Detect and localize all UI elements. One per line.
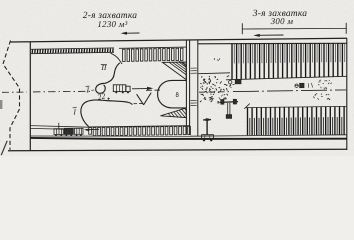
icon: muck truck at face	[113, 85, 130, 94]
node: pipe fittings marks upper	[318, 80, 332, 89]
node: pipe fittings marks lower	[214, 90, 222, 99]
dimension line 300m with end ticks	[242, 23, 346, 34]
hatch: arch rib teeth band (top heading lining)	[119, 47, 186, 61]
hatch: lower wall hatch band (3rd section)	[248, 107, 345, 136]
hatch: fine comb band (completed lining, left)	[31, 48, 114, 54]
arrow: advance direction (left) under dimension line	[253, 34, 283, 37]
node: scan smudge left edge	[0, 100, 2, 109]
wire: bottom wall line	[8, 149, 347, 150]
label: II with overline	[100, 63, 107, 72]
node: dashed excavation boundary (left portal)	[3, 41, 20, 150]
icon: winch unit on centerline	[295, 83, 313, 88]
svg-text:1230 м³: 1230 м³	[97, 19, 127, 29]
wire: lower bench face profile curve I	[81, 100, 132, 127]
wire: tunnel centerline (dash-dot axis)	[2, 90, 346, 92]
wire: teeth band right transition	[179, 61, 186, 67]
icon: screw jack on invert	[220, 99, 238, 118]
node: small plus marks under loop	[107, 98, 110, 100]
wire: heavy invert line	[30, 138, 346, 139]
wire: tunnel top wall line	[10, 38, 347, 42]
icon: muck train on ramp	[54, 123, 83, 137]
icon: face machine (compressor) on upper bench	[229, 80, 242, 88]
hatch: invert formwork teeth band	[89, 126, 191, 136]
arrow: haul direction (right)	[132, 87, 153, 90]
wire: left portal vertical line	[29, 42, 31, 151]
node: scan corner stroke bottom-left	[1, 141, 7, 155]
icon: grout pump cart	[202, 119, 214, 142]
wire: right border line	[346, 38, 348, 150]
hatch: upper wall hatch band (3rd section)	[232, 43, 345, 79]
wire: face bulkhead vertical pair	[186, 40, 189, 135]
wire: muck pile top line	[198, 72, 230, 75]
label: 8 inside shield	[176, 92, 178, 96]
hatch: ledge marks between bulkheads	[191, 68, 197, 106]
svg-text:I: I	[72, 107, 76, 116]
node: lower band end tick	[244, 104, 250, 109]
node: shield face (lower bench heading outline)	[158, 80, 187, 108]
hatch: blasted muck texture	[200, 76, 229, 104]
arrow: rail arrow (left)	[84, 129, 99, 132]
svg-text:I: I	[86, 85, 90, 94]
wire: invert top line	[30, 135, 346, 136]
wire: lower hatch band top line	[246, 106, 346, 107]
node: profile loop detail	[96, 83, 106, 93]
node: pipe riser marks mid	[313, 93, 330, 100]
node: face advance V mark	[137, 93, 152, 105]
arrow: advance direction (left) under 1230	[121, 32, 140, 35]
wire: section divider vertical	[197, 40, 199, 137]
wire: upper heading face profile curve II	[105, 63, 120, 84]
wire: top wall inner line (3rd section)	[198, 42, 347, 45]
node: small marks upper bench roof area	[214, 58, 220, 60]
label: I lower with overline	[72, 107, 76, 116]
wire: ramp top line	[31, 126, 89, 128]
wire: comb transition curve	[111, 53, 123, 64]
wire: upper bench floor line	[226, 76, 347, 80]
wire: ramp lower line	[31, 128, 71, 129]
node: rail end block	[89, 128, 92, 135]
wire: bench crest dashes	[134, 102, 144, 104]
svg-text:300 м: 300 м	[270, 16, 294, 26]
label: I upper with overline	[86, 85, 95, 94]
